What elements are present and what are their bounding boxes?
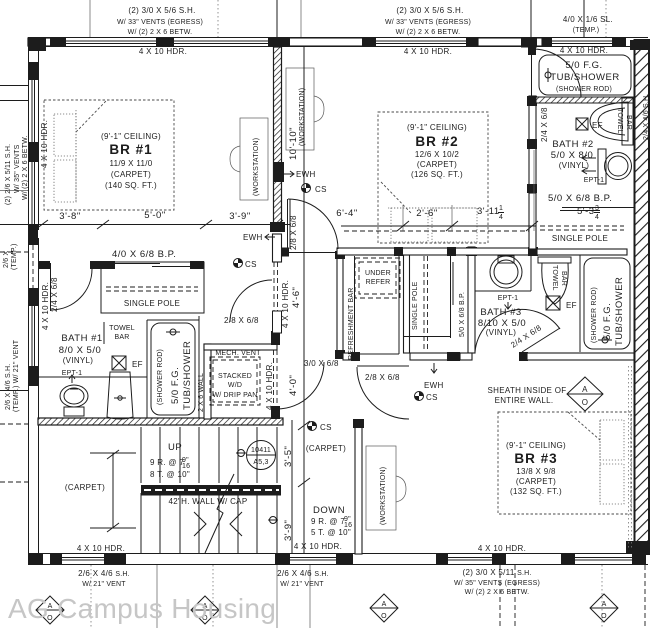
svg-text:W/ (2) 2 X 6 BETW.: W/ (2) 2 X 6 BETW. <box>465 589 530 596</box>
svg-text:(VINYL): (VINYL) <box>486 328 517 337</box>
BR2 bottom wall y249-255 <box>337 247 538 256</box>
svg-text:5/0 F.G.: 5/0 F.G. <box>170 367 181 404</box>
svg-text:(126 SQ. FT.): (126 SQ. FT.) <box>411 170 463 179</box>
bottom annotations <box>77 544 130 588</box>
bath2 tub wall (hatched) y98-103 <box>536 97 634 103</box>
svg-text:(VINYL): (VINYL) <box>63 356 94 365</box>
svg-text:4 X 10 HDR.: 4 X 10 HDR. <box>77 544 125 553</box>
svg-text:5/0 X 6/8 B.P.: 5/0 X 6/8 B.P. <box>548 193 612 204</box>
vertical dim 4'-0" hall lower <box>265 362 299 410</box>
vertical dim 2/8x6/8 right of hatch wall <box>289 215 298 250</box>
svg-text:4: 4 <box>499 214 503 221</box>
UP / DOWN and riser text <box>150 442 190 479</box>
bath1 pedestal sink <box>107 372 133 419</box>
svg-text:W/ 35" VENTS: W/ 35" VENTS <box>14 144 21 193</box>
svg-text:CS: CS <box>245 260 257 269</box>
dim line below BR1 <box>0 220 290 229</box>
svg-text:BR #1: BR #1 <box>109 142 152 157</box>
svg-text:8 T. @ 10": 8 T. @ 10" <box>150 470 190 479</box>
svg-text:BR #3: BR #3 <box>514 451 557 466</box>
bath2 EF symbol <box>576 118 603 130</box>
top annotations <box>117 6 203 56</box>
svg-text:(SHOWER ROD): (SHOWER ROD) <box>591 287 598 343</box>
bath2 toilet (sideways) <box>590 98 633 145</box>
bath3 door 2/4x6/8 diagonal leaf <box>475 309 560 352</box>
svg-text:SINGLE POLE: SINGLE POLE <box>552 234 608 243</box>
svg-text:EWH: EWH <box>424 381 444 390</box>
svg-text:2/6 X 4/6 S.H.: 2/6 X 4/6 S.H. <box>277 569 329 578</box>
sheath note <box>488 386 567 405</box>
left wall window units (2) 2/6x5/11 <box>28 38 46 565</box>
bath2 door 2/4x6/8 at top of wall <box>532 49 582 97</box>
svg-text:16: 16 <box>182 463 190 470</box>
svg-text:3'-11: 3'-11 <box>477 206 500 217</box>
svg-text:A5,3: A5,3 <box>253 459 268 466</box>
svg-text:4: 4 <box>595 214 599 221</box>
svg-text:10411: 10411 <box>251 447 271 454</box>
refreshment bar counter <box>343 256 399 354</box>
svg-text:4 X 10 HDR.: 4 X 10 HDR. <box>478 544 526 553</box>
svg-text:TUB/SHOWER: TUB/SHOWER <box>550 72 619 83</box>
diamond near sheath note <box>567 377 603 411</box>
svg-text:EF: EF <box>566 301 577 310</box>
bath3 bottom wall + hall wall y352-360 <box>343 352 634 361</box>
svg-text:5'-0": 5'-0" <box>144 210 165 221</box>
svg-text:BATH #3: BATH #3 <box>480 307 521 318</box>
svg-text:TOWEL: TOWEL <box>616 108 623 134</box>
svg-text:(WORKSTATION): (WORKSTATION) <box>299 88 306 146</box>
right exterior hatched 2x6 wall <box>626 40 650 554</box>
stacked W/D dashed box <box>210 357 260 405</box>
svg-text:TOWEL: TOWEL <box>551 265 558 291</box>
svg-text:(132 SQ. FT.): (132 SQ. FT.) <box>510 487 562 496</box>
detail bubble 10411/A5.3 <box>236 441 278 524</box>
svg-text:REFRESHMENT BAR: REFRESHMENT BAR <box>348 288 355 361</box>
svg-text:13/8 X 9/8: 13/8 X 9/8 <box>516 467 556 476</box>
svg-text:(9'-1" CEILING): (9'-1" CEILING) <box>506 441 566 450</box>
top wall solid segments <box>28 38 52 46</box>
svg-text:2/4 X 4/6 S.H.: 2/4 X 4/6 S.H. <box>643 94 650 140</box>
svg-text:4'-6": 4'-6" <box>291 287 302 308</box>
svg-text:(WORKSTATION): (WORKSTATION) <box>253 138 260 196</box>
svg-text:TOWEL: TOWEL <box>109 325 135 332</box>
bottom exterior wall outline <box>28 554 648 565</box>
EWH/CS symbols upper hall <box>284 170 327 194</box>
svg-text:TUB/SHOWER: TUB/SHOWER <box>182 341 193 410</box>
svg-text:BAR: BAR <box>560 271 567 286</box>
svg-text:(SHOWER ROD): (SHOWER ROD) <box>157 349 164 405</box>
BR1 / bath1 dividing wall y230-238 <box>39 261 115 269</box>
svg-text:BAR: BAR <box>625 115 632 130</box>
bath3 vanity + toilet <box>475 255 531 309</box>
svg-text:(CARPET): (CARPET) <box>111 170 151 179</box>
svg-text:REFER: REFER <box>366 279 391 286</box>
bottom wall window center 2/6x4/6 <box>275 554 353 564</box>
BR2 bed <box>378 112 488 243</box>
svg-text:STACKED: STACKED <box>218 373 252 380</box>
svg-text:W/ DRIP PAN: W/ DRIP PAN <box>212 392 257 399</box>
workstation BR2 (left edge) <box>286 68 324 150</box>
dim line below BR2 <box>341 150 538 231</box>
bath1 tub 5/0 F.G. <box>151 323 195 415</box>
top exterior wall outline <box>28 38 648 47</box>
bath2 towel bar (rotated) <box>616 108 632 134</box>
workstation BR1 (right edge of room) <box>230 118 268 200</box>
svg-text:(TEMP.): (TEMP.) <box>11 243 18 270</box>
svg-text:4 X 10 HDR.: 4 X 10 HDR. <box>265 362 274 410</box>
svg-text:W/ 21" VENT: W/ 21" VENT <box>82 581 126 588</box>
EWH/CS mid hall left <box>234 233 276 269</box>
svg-text:W/ 35" VENTS (EGRESS): W/ 35" VENTS (EGRESS) <box>454 580 540 587</box>
bath1 EPT-1 label + arrow <box>62 370 82 383</box>
svg-text:9 R. @ 7: 9 R. @ 7 <box>150 458 184 467</box>
svg-text:A: A <box>582 385 588 394</box>
left rotated annotations <box>5 135 29 205</box>
svg-text:TUB/SHOWER: TUB/SHOWER <box>614 277 625 346</box>
svg-text:(2) 3/0 X 5/6 S.H.: (2) 3/0 X 5/6 S.H. <box>396 6 463 15</box>
mech vent closet walls <box>204 344 277 419</box>
BATH2 labels <box>551 139 594 170</box>
bath3 tub rotated labels <box>591 277 625 346</box>
bath2 washer/laundry circle <box>598 149 632 184</box>
stair treads upper flight <box>141 420 292 553</box>
svg-text:BR #2: BR #2 <box>415 134 458 149</box>
hatched interior wall between BR1 and BR2 (x 272-283) <box>270 47 285 262</box>
bottom margin projection lines <box>91 565 645 628</box>
svg-text:W/ 33" VENTS (EGRESS): W/ 33" VENTS (EGRESS) <box>385 19 471 26</box>
hall door 2/8x6/8 (leaf + arc) <box>357 366 409 419</box>
window BR1 top: (2) 3/0x5/6 <box>50 38 290 47</box>
BR2 labels <box>407 123 467 179</box>
bath2 EPT-1 + arrow <box>582 155 604 184</box>
svg-text:EWH: EWH <box>243 233 263 242</box>
svg-text:UNDER: UNDER <box>365 270 391 277</box>
42in half wall w/cap <box>141 485 281 496</box>
svg-text:W/ (2) 2 X 6 BETW.: W/ (2) 2 X 6 BETW. <box>396 29 461 36</box>
svg-text:5/0 F.G.: 5/0 F.G. <box>602 303 613 340</box>
svg-text:W/ (2) 2 X 6 BETW.: W/ (2) 2 X 6 BETW. <box>22 135 29 200</box>
svg-text:BATH #2: BATH #2 <box>552 139 593 150</box>
svg-text:EF: EF <box>132 360 143 369</box>
stair break line <box>205 474 234 553</box>
svg-text:4 X 10 HDR.: 4 X 10 HDR. <box>281 280 290 328</box>
door pocket (2/8x6/8) upper: dashed jambs + arc into bath1 <box>230 262 282 333</box>
bath1 tub enclosure walls <box>147 316 199 419</box>
svg-text:W/D: W/D <box>228 382 242 389</box>
svg-text:9 R. @ 7: 9 R. @ 7 <box>311 517 345 526</box>
top margin projection lines <box>90 0 606 47</box>
svg-text:BATH #1: BATH #1 <box>61 333 102 344</box>
svg-text:3/0 X 6/8: 3/0 X 6/8 <box>304 359 339 368</box>
window BR2 top <box>362 38 478 47</box>
BATH1 labels <box>59 333 103 365</box>
BR2 entry door (leaf+arc) at hall <box>281 199 338 257</box>
hall east wall / refreshment bar wall x337-343 <box>335 251 345 359</box>
svg-text:SHEATH INSIDE OF: SHEATH INSIDE OF <box>488 386 567 395</box>
door 2/4x6/8 from BR1 into bath1 <box>51 263 93 311</box>
bath3 pedestal sink <box>538 257 571 304</box>
svg-text:3: 3 <box>595 205 599 212</box>
bottom wall window left 2/6x4/6 <box>50 554 126 564</box>
svg-text:(CARPET): (CARPET) <box>65 483 105 492</box>
svg-text:8/0 X 5/0: 8/0 X 5/0 <box>59 345 102 356</box>
svg-text:5 T. @ 10": 5 T. @ 10" <box>311 528 351 537</box>
bath2 tub labels <box>550 46 619 93</box>
svg-text:W/ (2) 2 X 6 BETW.: W/ (2) 2 X 6 BETW. <box>128 29 193 36</box>
svg-text:(CARPET): (CARPET) <box>417 160 457 169</box>
bath3 towel bar + EF <box>546 265 577 310</box>
BR3 left wall x355-362 <box>353 419 364 554</box>
svg-text:W/ 21" VENT: W/ 21" VENT <box>280 581 324 588</box>
svg-text:CS: CS <box>320 423 332 432</box>
svg-text:EPT-1: EPT-1 <box>584 177 604 184</box>
BR1 closet (4/0 x 6/8 B.P.) <box>101 261 204 313</box>
svg-text:CS: CS <box>315 185 327 194</box>
left margin lines <box>0 86 28 483</box>
svg-text:10'-10": 10'-10" <box>288 127 299 160</box>
svg-text:CS: CS <box>426 393 438 402</box>
BR3 bed <box>498 412 631 514</box>
svg-text:(CARPET): (CARPET) <box>516 477 556 486</box>
svg-text:4/0 X 6/8 B.P.: 4/0 X 6/8 B.P. <box>112 249 176 260</box>
svg-text:4 X 10 HDR.: 4 X 10 HDR. <box>41 282 50 330</box>
svg-text:SINGLE POLE: SINGLE POLE <box>124 299 180 308</box>
svg-text:12/6 X 10/2: 12/6 X 10/2 <box>415 150 459 159</box>
vertical dim hall left of stairs <box>90 450 136 532</box>
svg-text:4 X 10 HDR.: 4 X 10 HDR. <box>40 120 49 168</box>
door pocket (3/0x6/8) lower: dashed jambs + arc <box>271 331 324 419</box>
svg-text:6'-4": 6'-4" <box>336 208 357 219</box>
svg-text:O: O <box>582 398 589 407</box>
svg-text:3'-8": 3'-8" <box>59 211 80 222</box>
svg-text:11/9 X 11/0: 11/9 X 11/0 <box>109 159 152 168</box>
vertical dim 4'-6" hall <box>281 280 302 328</box>
svg-text:EWH: EWH <box>296 170 316 179</box>
svg-text:5'-3: 5'-3 <box>577 206 595 217</box>
bottom wall BR3 windows (2) 3/0x5/11 <box>436 554 646 564</box>
svg-text:W/ 33" VENTS (EGRESS): W/ 33" VENTS (EGRESS) <box>117 19 203 26</box>
refreshment bar labels <box>348 270 466 360</box>
svg-text:EPT-1: EPT-1 <box>498 295 518 302</box>
svg-text:DOWN: DOWN <box>313 505 345 516</box>
svg-text:(2) 2/6 X 5/11 S.H.: (2) 2/6 X 5/11 S.H. <box>5 144 12 205</box>
bath1 tub rotated labels <box>157 341 193 410</box>
svg-text:(140 SQ. FT.): (140 SQ. FT.) <box>105 181 157 190</box>
svg-text:2/4 X 6/8: 2/4 X 6/8 <box>50 277 59 312</box>
svg-text:5/0 X 6/8 B.P.: 5/0 X 6/8 B.P. <box>459 292 466 337</box>
svg-text:(2) 3/0 X 5/11 S.H.: (2) 3/0 X 5/11 S.H. <box>462 568 531 577</box>
svg-text:5/0 F.G.: 5/0 F.G. <box>565 60 602 71</box>
svg-text:2 X 6 WALL: 2 X 6 WALL <box>198 373 205 412</box>
svg-text:3'-5": 3'-5" <box>283 446 294 467</box>
svg-text:AG Campus Housing: AG Campus Housing <box>8 593 276 624</box>
svg-text:4 X 10 HDR.: 4 X 10 HDR. <box>139 47 187 56</box>
svg-text:2/6 X 4/6 S.H.: 2/6 X 4/6 S.H. <box>78 569 130 578</box>
svg-text:3'-9": 3'-9" <box>283 520 294 541</box>
bath1 toilet <box>60 385 88 416</box>
svg-text:2/6 X 4/6 S.H.: 2/6 X 4/6 S.H. <box>5 364 12 410</box>
svg-text:(9'-1" CEILING): (9'-1" CEILING) <box>101 132 161 141</box>
BR1 bed <box>44 100 174 210</box>
svg-text:3'-9": 3'-9" <box>229 211 250 222</box>
bath1 vanity counter line <box>38 376 147 378</box>
svg-text:(TEMP.) W/ 21" VENT: (TEMP.) W/ 21" VENT <box>13 339 20 412</box>
svg-text:(TEMP.): (TEMP.) <box>573 27 600 34</box>
svg-text:4/0 X 1/6 SL.: 4/0 X 1/6 SL. <box>563 15 613 24</box>
hall closet single pole (x405-437) <box>404 247 478 353</box>
svg-text:2/4 X 6/8: 2/4 X 6/8 <box>540 107 549 142</box>
svg-text:SINGLE POLE: SINGLE POLE <box>412 281 419 330</box>
diamond A/O center-right <box>370 594 398 622</box>
under refer dashed box <box>355 258 400 298</box>
svg-text:EPT-1: EPT-1 <box>62 370 82 377</box>
bath1 towel bar <box>104 322 135 344</box>
CS lower hall <box>308 422 332 433</box>
svg-text:5/0 X 8/0: 5/0 X 8/0 <box>551 150 594 161</box>
svg-text:(9'-1" CEILING): (9'-1" CEILING) <box>407 123 467 132</box>
svg-text:(SHOWER ROD): (SHOWER ROD) <box>556 86 612 93</box>
left wall window 2/6x4/6 (bath1) <box>29 245 38 386</box>
diamond A/O center-left <box>191 596 219 624</box>
bath2 tub 5/0 F.G. horizontal <box>539 55 631 95</box>
svg-text:ENTIRE WALL.: ENTIRE WALL. <box>495 396 554 405</box>
vertical dim 10'-10" in hall <box>288 47 304 553</box>
bath1 EF symbol <box>112 356 143 370</box>
svg-text:O: O <box>601 613 607 620</box>
svg-text:4 X 10 HDR.: 4 X 10 HDR. <box>560 46 608 55</box>
svg-text:2/8 X 6/8: 2/8 X 6/8 <box>289 215 298 250</box>
svg-text:2'-6": 2'-6" <box>416 208 437 219</box>
svg-text:EF: EF <box>592 121 603 130</box>
svg-text:4'-0": 4'-0" <box>288 375 299 396</box>
diamond A/O right <box>590 594 618 622</box>
window bath2 top: 4/0x1/6 SL <box>542 38 626 47</box>
svg-text:(2) 3/0 X 5/6 S.H.: (2) 3/0 X 5/6 S.H. <box>128 6 195 15</box>
svg-text:4 X 10 HDR.: 4 X 10 HDR. <box>404 47 452 56</box>
BR1 labels <box>101 132 161 190</box>
svg-text:UP: UP <box>168 442 182 453</box>
bath3 tub (vertical, right) <box>580 255 630 352</box>
workstation BR3 <box>366 446 406 530</box>
svg-text:A: A <box>602 601 607 608</box>
svg-text:2/8 X 6/8: 2/8 X 6/8 <box>365 373 400 382</box>
svg-text:BAR: BAR <box>115 334 130 341</box>
svg-text:4 X 10 HDR.: 4 X 10 HDR. <box>294 542 342 551</box>
BATH3 labels <box>478 307 526 337</box>
EWH/CS near BR3 door <box>415 363 444 402</box>
bath2 left wall x528-535 <box>521 38 537 250</box>
svg-text:(WORKSTATION): (WORKSTATION) <box>380 467 387 525</box>
mech vent labels <box>198 350 261 412</box>
stair direction chevrons <box>194 512 242 536</box>
svg-text:2/8 X 6/8: 2/8 X 6/8 <box>224 316 259 325</box>
stair treads lower flight <box>141 493 277 553</box>
BR3 labels <box>506 441 566 496</box>
svg-text:O: O <box>381 613 387 620</box>
svg-text:(VINYL): (VINYL) <box>559 161 590 170</box>
vertical dim 3'-5" / 3'-9" right of stairs <box>283 421 310 541</box>
svg-text:2/6 X: 2/6 X <box>3 251 10 268</box>
svg-text:A: A <box>382 601 387 608</box>
bath1 hatched bottom wall <box>38 418 283 425</box>
diamond A/O left <box>36 596 64 624</box>
svg-text:MECH. VENT: MECH. VENT <box>215 350 261 357</box>
svg-text:42"H. WALL W/ CAP: 42"H. WALL W/ CAP <box>169 497 248 506</box>
left exterior wall outline <box>29 37 39 565</box>
svg-text:(CARPET): (CARPET) <box>306 444 346 453</box>
svg-text:1: 1 <box>499 205 503 212</box>
closet btwn bath2/bath3 (5/0x6/8 BP) <box>537 208 635 256</box>
